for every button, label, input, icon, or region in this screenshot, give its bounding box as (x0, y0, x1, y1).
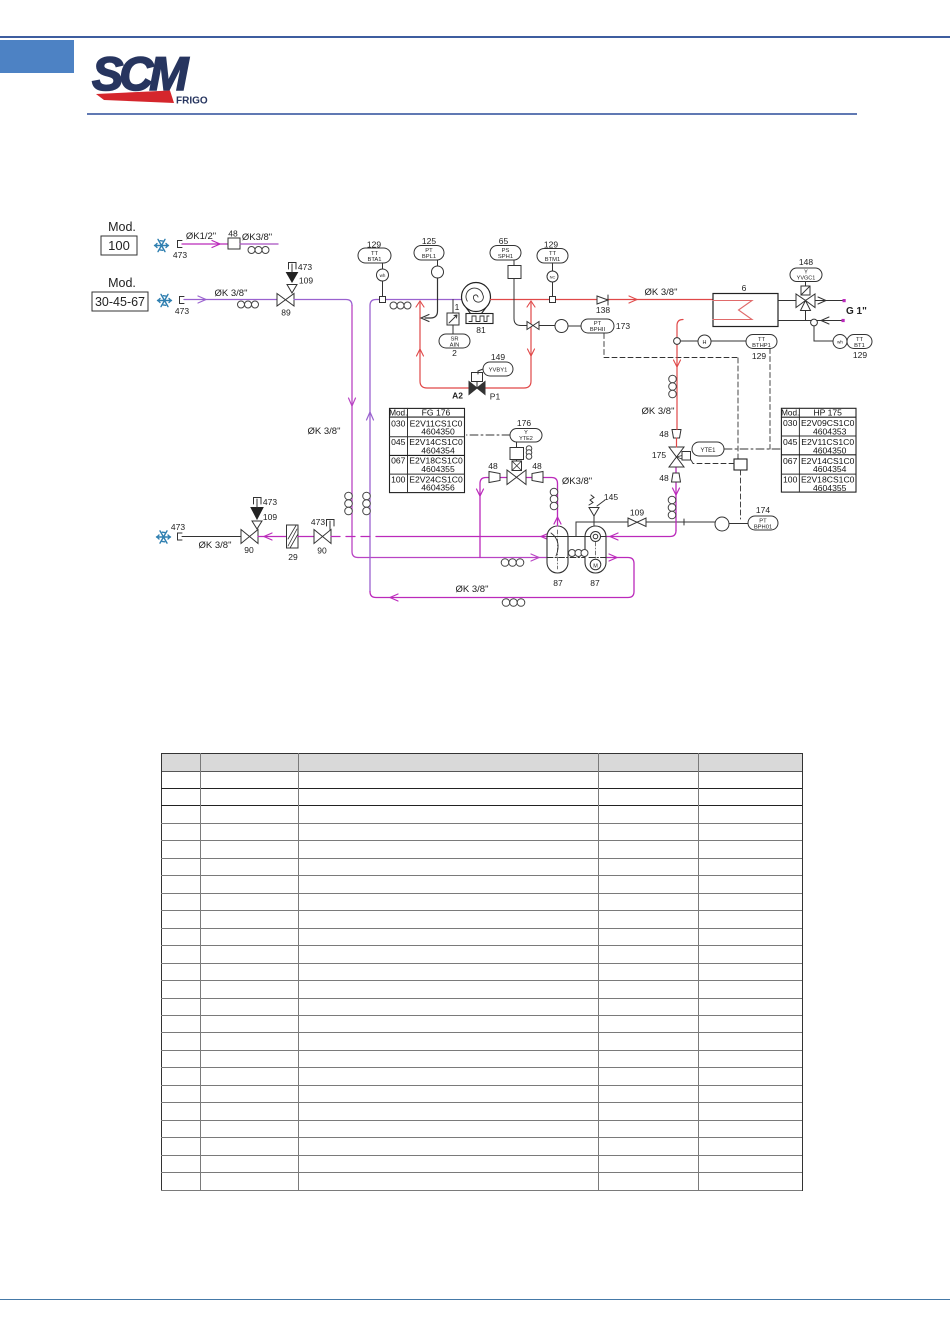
red bypass loop (420, 303, 531, 388)
svg-text:87: 87 (590, 578, 600, 588)
wire 3way out G (815, 300, 843, 302)
pipe cap line1 (178, 241, 183, 248)
flange left FG (489, 472, 500, 483)
dashed box to actuator (691, 460, 734, 464)
wire y536 vessels internal (547, 536, 606, 538)
check small at loop (527, 322, 539, 330)
header underline (87, 113, 857, 115)
dashed box down to BPH01 line (740, 470, 742, 519)
table column lines (200, 753, 201, 1190)
arrow discharge (629, 296, 637, 303)
relief stack above 89 (287, 285, 297, 294)
vessel 87 left (547, 526, 568, 573)
coils red drop (669, 375, 677, 398)
coils suction after corner (390, 302, 411, 309)
svg-text:ØK 3/8": ØK 3/8" (645, 287, 678, 298)
svg-text:BPL1: BPL1 (422, 254, 436, 260)
bubble TT BT1 (847, 335, 872, 349)
svg-text:BPHII: BPHII (590, 327, 606, 333)
arrow left y536 (264, 533, 272, 540)
svg-text:473: 473 (298, 262, 312, 272)
svg-text:129: 129 (853, 350, 867, 360)
relief stack above 90a (252, 521, 262, 529)
svg-text:P1: P1 (490, 392, 501, 402)
valve 89 (277, 294, 294, 307)
svg-text:H: H (703, 340, 707, 346)
svg-text:48: 48 (659, 429, 669, 439)
arrow up loop left (417, 349, 424, 356)
snowflake 1 (155, 239, 169, 251)
svg-text:ØK 3/8": ØK 3/8" (642, 406, 675, 417)
snowflake 2 (158, 294, 172, 306)
circle on G return (811, 319, 818, 326)
arrow up vertical2 (367, 412, 374, 420)
relief valve 145 (589, 508, 599, 527)
circle H heater (681, 340, 747, 342)
svg-text:ØK3/8": ØK3/8" (242, 232, 272, 243)
inverter box 81 (466, 314, 493, 324)
svg-text:90: 90 (244, 545, 254, 555)
arrow down red drop (674, 360, 681, 367)
bubble YVGC1 (790, 268, 822, 282)
arrow up into FG branch (554, 517, 561, 524)
svg-text:6: 6 (742, 283, 747, 293)
wire liquid row y536 black segment (182, 536, 241, 538)
svg-text:29: 29 (288, 552, 298, 562)
svg-text:M: M (593, 564, 598, 570)
svg-text:176: 176 (517, 418, 531, 428)
svg-text:48: 48 (659, 473, 669, 483)
stem to BT1 (814, 326, 833, 341)
coils y557 (501, 559, 524, 567)
flange above 175 (672, 430, 681, 439)
coils line1 (248, 247, 269, 254)
dashed YTE1 to HP table (724, 448, 781, 450)
svg-text:030: 030 (391, 418, 406, 428)
svg-text:4604353: 4604353 (813, 427, 847, 437)
svg-text:A2: A2 (452, 391, 463, 401)
wire line1 right (240, 243, 278, 245)
FG table (389, 408, 464, 493)
arrow left return (390, 594, 398, 601)
valve 90 a (241, 530, 258, 544)
control box (734, 459, 747, 470)
svg-text:4604350: 4604350 (421, 427, 455, 437)
actuator FG (512, 461, 522, 471)
wire y536 solid to vessel1 (376, 536, 547, 538)
svg-text:48: 48 (532, 461, 542, 471)
svg-text:473: 473 (311, 517, 325, 527)
wire suction from snowflake (184, 299, 277, 301)
svg-text:48: 48 (488, 461, 498, 471)
FG expansion branch wire (480, 478, 558, 558)
svg-text:145: 145 (604, 492, 618, 502)
svg-text:ØK1/2": ØK1/2" (186, 231, 216, 242)
vessel internal lower line (547, 557, 606, 559)
svg-text:81: 81 (476, 325, 486, 335)
svg-text:BTM1: BTM1 (545, 257, 560, 263)
junction circle red drop (674, 338, 681, 345)
valve 109 relief (628, 518, 646, 527)
svg-text:BTHP1: BTHP1 (752, 343, 771, 349)
svg-text:030: 030 (783, 418, 798, 428)
Mod 100 box (101, 236, 137, 255)
dashed BTHP1 drop (769, 349, 771, 450)
check valve 138 (597, 295, 608, 305)
svg-text:045: 045 (391, 437, 406, 447)
svg-text:30-45-67: 30-45-67 (95, 295, 145, 309)
wire magenta 90a to filter (258, 536, 287, 538)
svg-text:067: 067 (783, 456, 798, 466)
svg-text:148: 148 (799, 257, 813, 267)
top blue rule (0, 36, 950, 38)
valve A2 P1 (469, 382, 485, 395)
svg-text:067: 067 (391, 456, 406, 466)
wire vertical1 evap return down (352, 306, 358, 558)
svg-text:125: 125 (422, 236, 436, 246)
dashed YTE2 to FG table (467, 434, 511, 436)
coils FG branch (550, 488, 558, 510)
vessel internal liquid line (547, 536, 606, 538)
wire line1 left magenta (182, 243, 228, 245)
svg-text:Mod.: Mod. (389, 409, 407, 418)
arrow down vertical1 (349, 398, 356, 406)
svg-text:473: 473 (263, 497, 277, 507)
3way valve YVGC1 (796, 294, 815, 311)
bubble SR AIN (439, 334, 470, 348)
coils return (502, 599, 525, 607)
svg-text:YTE1: YTE1 (700, 448, 716, 454)
svg-text:BPH01: BPH01 (754, 525, 772, 531)
svg-text:109: 109 (299, 276, 313, 286)
svg-text:YTE2: YTE2 (519, 436, 533, 442)
circle before BPHII (555, 320, 568, 333)
svg-text:YVGC1: YVGC1 (797, 276, 816, 282)
svg-text:109: 109 (630, 508, 644, 518)
svg-text:ØK 3/8": ØK 3/8" (308, 426, 341, 437)
svg-text:G 1": G 1" (846, 306, 867, 317)
svg-text:4604356: 4604356 (421, 483, 455, 493)
svg-text:4604354: 4604354 (421, 445, 455, 455)
valve FG 176 (507, 470, 526, 485)
blue corner block (0, 40, 74, 73)
svg-text:4604354: 4604354 (813, 464, 847, 474)
svg-text:ØK 3/8": ØK 3/8" (199, 540, 232, 551)
arrow line1 (212, 241, 220, 248)
coils suction (238, 301, 259, 308)
svg-text:473: 473 (173, 250, 187, 260)
arrow right y557 (531, 554, 539, 561)
arrow suction (198, 296, 206, 303)
svg-text:FG 176: FG 176 (422, 408, 451, 418)
svg-text:YVBY1: YVBY1 (489, 368, 508, 374)
wire G return (778, 311, 843, 321)
wire suction to corner (294, 300, 352, 306)
junction hat right (527, 301, 535, 307)
instrument circle BPH01 (715, 517, 729, 531)
svg-text:149: 149 (491, 352, 505, 362)
svg-text:BTA1: BTA1 (367, 257, 381, 263)
SCM FRIGO logo (90, 48, 210, 108)
wire vessel feed y557 (358, 557, 547, 559)
wire suction main to compressor (376, 299, 462, 301)
wire 175 valve drop leg (675, 467, 677, 531)
svg-text:473: 473 (171, 522, 185, 532)
wire y557 vessels internal (547, 557, 606, 559)
svg-text:BT1: BT1 (854, 343, 865, 349)
pipe cap line2 (180, 297, 185, 304)
vessel 87 right (585, 526, 606, 573)
svg-text:Mod.: Mod. (108, 220, 136, 234)
arrow down loop right (528, 349, 535, 356)
svg-text:174: 174 (756, 505, 770, 515)
svg-text:ØK 3/8": ØK 3/8" (456, 584, 489, 595)
svg-text:109: 109 (263, 512, 277, 522)
Mod 30-45-67 box (92, 292, 148, 311)
HP table (781, 408, 856, 493)
flag above 90b (327, 520, 335, 530)
svg-text:473: 473 (175, 306, 189, 316)
svg-text:65: 65 (499, 236, 509, 246)
bubble YTE2 (510, 429, 542, 443)
bubble YTE1 (692, 442, 724, 456)
table header row (162, 754, 802, 772)
svg-text:89: 89 (281, 308, 291, 318)
svg-text:100: 100 (783, 475, 798, 485)
svg-text:4604355: 4604355 (813, 483, 847, 493)
svg-text:Mod.: Mod. (108, 276, 136, 290)
svg-text:129: 129 (752, 351, 766, 361)
bottom parts table (161, 753, 803, 1191)
coils drop leg (668, 496, 676, 519)
coils between vessels (569, 550, 589, 557)
svg-text:90: 90 (317, 546, 327, 556)
stem SPH1 (513, 260, 515, 266)
svg-text:SPH1: SPH1 (498, 254, 513, 260)
footer rule (0, 1299, 950, 1300)
svg-text:ØK3/8": ØK3/8" (562, 476, 592, 487)
svg-text:Mod.: Mod. (781, 409, 799, 418)
svg-text:87: 87 (553, 578, 563, 588)
compressor scroll (462, 299, 491, 301)
wire bottom return y597 (370, 558, 634, 598)
flange below 175 (672, 473, 681, 482)
heat exchanger 6 (713, 294, 778, 327)
filter 29 (287, 525, 299, 548)
wire HX to 3way (778, 300, 796, 302)
red HX coil (713, 301, 752, 320)
bubble PT BPHII (581, 319, 614, 333)
coil box FG (516, 442, 518, 461)
wire vertical2 suction riser (370, 300, 376, 592)
arrow left y536 right side (610, 533, 618, 540)
bubble PT BPH01 (748, 516, 778, 530)
bubble YVBY1 (483, 362, 513, 376)
svg-text:138: 138 (596, 305, 610, 315)
svg-text:ØK 3/8": ØK 3/8" (215, 288, 248, 299)
stem BPL1 (437, 260, 439, 266)
bubble TT BTHP1 (746, 335, 777, 349)
dashed riser x738 (737, 358, 739, 459)
stem BTA1 (382, 263, 384, 297)
arrow right into return corner (609, 554, 617, 561)
wire y536 from 175 valve corner (606, 531, 676, 537)
svg-text:1: 1 (455, 302, 460, 312)
svg-text:4604350: 4604350 (813, 445, 847, 455)
coils vertical1 (345, 492, 353, 515)
flange right FG (532, 472, 543, 483)
svg-text:48: 48 (228, 229, 238, 239)
svg-text:NC: NC (550, 275, 556, 280)
svg-text:4604355: 4604355 (421, 464, 455, 474)
arrow down FG branch left (477, 489, 484, 496)
svg-text:wh: wh (380, 273, 386, 278)
svg-text:100: 100 (391, 474, 406, 484)
svg-text:wh: wh (837, 340, 843, 345)
red discharge line (491, 299, 714, 301)
SR square (447, 313, 459, 325)
arrow left y536 at vessel1 (541, 533, 549, 540)
relief line y522 (576, 519, 684, 537)
coils vertical2 (363, 492, 371, 515)
wire y536 dashes across risers (331, 536, 376, 538)
valve 90 b (314, 530, 331, 544)
stem BTM1 (552, 263, 554, 297)
wire filter to 90b (298, 536, 314, 538)
dashed BPHII run (604, 334, 738, 358)
actuator 175 (682, 452, 691, 461)
flange 48 line1 (228, 238, 240, 249)
svg-text:175: 175 (652, 450, 666, 460)
svg-text:2: 2 (452, 348, 457, 358)
svg-text:173: 173 (616, 321, 630, 331)
arrow down drop leg (673, 488, 680, 495)
svg-text:100: 100 (108, 238, 130, 253)
expansion valve 175 (669, 447, 684, 467)
red discharge drop x677 (677, 320, 684, 448)
junction hat left (416, 301, 424, 307)
svg-text:045: 045 (783, 437, 798, 447)
svg-text:HP 175: HP 175 (813, 408, 842, 418)
snowflake 3 (157, 531, 171, 543)
